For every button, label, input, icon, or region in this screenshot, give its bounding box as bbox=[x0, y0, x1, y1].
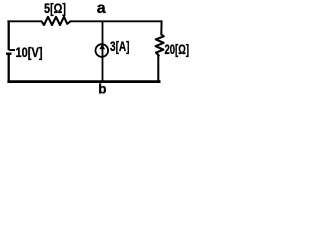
current source I1 circle bbox=[96, 44, 109, 57]
svg-text:a: a bbox=[97, 0, 106, 17]
resistor R2 zigzag bbox=[156, 35, 164, 56]
wire left lower bbox=[8, 54, 10, 83]
resistor R1 zigzag bbox=[42, 17, 71, 25]
wire top-left segment bbox=[7, 20, 41, 22]
svg-text:3[A]: 3[A] bbox=[110, 39, 130, 54]
wire right lower bbox=[157, 56, 159, 83]
wire left upper bbox=[8, 20, 10, 50]
wire right upper bbox=[160, 20, 162, 35]
wire bottom bbox=[7, 80, 160, 83]
svg-text:20[Ω]: 20[Ω] bbox=[165, 42, 190, 57]
svg-text:b: b bbox=[98, 81, 106, 96]
svg-text:10[V]: 10[V] bbox=[16, 45, 43, 60]
voltage source V1 long plate bbox=[9, 49, 15, 51]
current source I1 arrowhead bbox=[99, 44, 105, 50]
wire middle branch bbox=[102, 21, 104, 81]
svg-text:5[Ω]: 5[Ω] bbox=[44, 1, 66, 16]
voltage source V1 short plate bbox=[6, 53, 12, 55]
wire top-right segment bbox=[71, 20, 163, 22]
